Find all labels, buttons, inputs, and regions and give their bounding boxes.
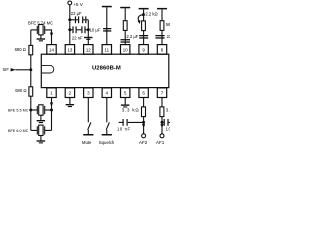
svg-text:BFE 6.0 MC: BFE 6.0 MC	[8, 129, 29, 133]
wire pin 7 down	[161, 98, 163, 134]
ground FL3	[37, 140, 46, 143]
IC U1 body	[41, 54, 169, 87]
wire C1 links	[76, 19, 88, 21]
svg-text:22 nF: 22 nF	[72, 35, 83, 40]
resistor R4	[142, 107, 146, 117]
svg-text:2: 2	[69, 91, 72, 96]
ground on pin 12 line	[84, 37, 93, 40]
arrow on pin 1 wire	[50, 102, 53, 107]
switch S2 blade	[106, 122, 109, 134]
resistor 680 ohm upper label	[15, 47, 26, 52]
wire rail tap to pin 10	[124, 8, 126, 44]
filter FL2 BFE 5.5 MC	[37, 105, 44, 115]
capacitor C1 22uF pair	[75, 16, 86, 23]
wire node A rail to FL1	[31, 29, 38, 31]
svg-text:22n: 22n	[167, 34, 170, 39]
pin 12	[84, 45, 93, 55]
filter FL2 label BFE 5.5 MC	[8, 109, 29, 113]
arrow into pin 14	[50, 33, 53, 38]
wire node G to FL2	[31, 109, 38, 111]
capacitor C5	[139, 35, 148, 39]
capacitor 10uF label	[90, 27, 101, 32]
capacitor C7 label 10 nF	[117, 127, 131, 132]
resistor R5 3.3 kOhm label clipped	[166, 108, 175, 113]
svg-text:Squelch: Squelch	[99, 140, 115, 145]
resistor R3	[160, 21, 164, 31]
node H junction	[142, 121, 145, 124]
ground pin 2	[66, 104, 75, 107]
pin 2	[65, 88, 74, 98]
capacitor C3 10uF	[103, 28, 111, 32]
+5V terminal	[68, 1, 72, 5]
FL3 ground stem	[40, 136, 42, 141]
wire SIF to node A	[16, 69, 31, 71]
wire rail tap to pin 11	[106, 7, 108, 44]
resistor R5	[160, 107, 164, 117]
filter FL1 label BFE 5.74 MC	[28, 20, 53, 25]
supply rail tap pin 9	[139, 8, 149, 9]
AF1 output terminal	[160, 134, 164, 138]
potentiometer R2 body	[142, 21, 146, 31]
+5V label	[73, 2, 84, 7]
filter FL1 BFE 5.74 MC	[37, 25, 44, 35]
capacitor C8 label clipped	[166, 127, 172, 132]
svg-text:3.3: 3.3	[166, 108, 170, 113]
pin 13	[65, 45, 74, 55]
svg-text:10 nF: 10 nF	[117, 127, 131, 132]
svg-text:9: 9	[142, 47, 145, 52]
capacitor C6	[155, 35, 164, 39]
wire node H to C7	[128, 121, 144, 123]
svg-text:AF2: AF2	[139, 140, 148, 145]
svg-text:Mute: Mute	[82, 140, 92, 145]
svg-text:2.2 kΩ: 2.2 kΩ	[145, 11, 157, 16]
svg-text:12: 12	[86, 47, 91, 52]
resistor 680 ohm lower label	[15, 88, 26, 93]
pin 4	[102, 88, 111, 98]
arrow to AF2	[142, 124, 145, 128]
wire FL2 to node F	[45, 109, 52, 111]
svg-text:680 Ω: 680 Ω	[15, 88, 26, 93]
FL1 ground stem	[40, 35, 42, 39]
pin 5	[121, 88, 130, 98]
filter FL3 BFE 6.0 MC	[37, 125, 44, 135]
FL2 ground stem	[40, 115, 42, 120]
capacitor C8	[164, 119, 169, 126]
potentiometer 2.2 kOhm label	[145, 11, 157, 16]
node G junction	[29, 109, 32, 112]
wire FL3 to pin1 rail	[45, 129, 52, 131]
capacitor C2 22nF pair	[72, 26, 85, 33]
svg-text:3: 3	[87, 91, 90, 96]
wire node B to C1	[70, 19, 76, 21]
svg-text:6: 6	[142, 91, 145, 96]
AF2 label	[139, 140, 148, 145]
node B junction	[68, 18, 71, 21]
filter FL3 label BFE 6.0 MC	[8, 129, 29, 133]
IC notch	[42, 65, 54, 73]
AF1 label	[156, 140, 165, 145]
svg-text:2.2 µF: 2.2 µF	[126, 34, 138, 39]
wire node I to C8	[162, 121, 164, 123]
AF2 output terminal	[142, 134, 146, 138]
node F junction	[50, 109, 53, 112]
switch S2 terminal bar	[102, 134, 112, 136]
capacitor 2.2uF label	[126, 34, 138, 39]
pin 7	[157, 88, 166, 98]
svg-text:AF1: AF1	[156, 140, 165, 145]
potentiometer wiper arrowhead	[137, 20, 140, 24]
pin 14	[47, 45, 56, 55]
wire C2 links	[77, 29, 89, 31]
arrow to AF1	[160, 124, 163, 128]
wire pin 3 down	[87, 98, 89, 123]
capacitor C7 10nF	[123, 119, 128, 126]
svg-text:SIF: SIF	[3, 67, 10, 72]
resistor R1	[123, 21, 127, 31]
resistor R4 3.3 kOhm label	[122, 108, 140, 113]
svg-text:13: 13	[67, 47, 72, 52]
resistor 680 ohm lower	[29, 87, 33, 96]
pin 11	[102, 45, 111, 55]
switch S2 label Squelch	[99, 140, 115, 145]
svg-text:1: 1	[50, 91, 53, 96]
svg-text:3.3 kΩ: 3.3 kΩ	[122, 108, 140, 113]
switch S1 terminal bar	[83, 134, 93, 136]
SIF input label	[3, 67, 10, 72]
switch S1 blade	[88, 122, 91, 134]
supply rail tap pin 11	[102, 6, 112, 8]
ground FL2	[37, 120, 46, 123]
node C junction	[68, 28, 71, 31]
supply rail tap pin 8	[157, 8, 167, 9]
wire +5V to pin 13	[69, 5, 71, 45]
wire pin 4 down	[106, 98, 108, 123]
ground FL1	[37, 38, 46, 41]
svg-text:14: 14	[49, 47, 54, 52]
svg-text:8: 8	[161, 47, 164, 52]
pin 1	[47, 88, 56, 98]
svg-text:BFE 5.5 MC: BFE 5.5 MC	[8, 109, 29, 113]
ground pin 5	[121, 104, 129, 107]
SIF input arrow	[11, 68, 16, 71]
capacitor 22nF label	[72, 35, 83, 40]
wire rail tap to pin 9	[143, 9, 145, 44]
resistor 680 ohm upper	[29, 45, 33, 54]
svg-text:4: 4	[106, 91, 109, 96]
svg-text:11: 11	[105, 47, 110, 52]
svg-text:10: 10	[166, 127, 170, 132]
svg-text:560: 560	[166, 22, 170, 27]
wire rail to FL3	[31, 129, 38, 131]
wire node C to C2	[70, 29, 73, 31]
svg-text:10 µF: 10 µF	[90, 27, 101, 32]
potentiometer wiper arrow	[138, 15, 143, 21]
svg-text:+5 V: +5 V	[73, 2, 84, 7]
pin 6	[139, 88, 148, 98]
pin 8	[157, 45, 166, 55]
resistor R3 value label clipped	[166, 22, 174, 27]
capacitor 22uF label	[71, 11, 82, 16]
wire decoupling rail to pin 12	[87, 20, 89, 45]
wire pin 1 down	[51, 98, 53, 131]
svg-text:U2860B-M: U2860B-M	[92, 66, 121, 72]
wire pin 2 down	[69, 98, 71, 105]
wire rail tap to pin 8	[161, 9, 163, 44]
svg-text:5: 5	[124, 91, 127, 96]
wire pin 5 down	[124, 98, 126, 105]
capacitor C6 value label clipped	[167, 34, 175, 39]
capacitor C7 stub	[119, 121, 123, 123]
svg-text:10: 10	[123, 47, 128, 52]
wire FL1 out to pin 14	[45, 30, 52, 45]
pin 3	[84, 88, 93, 98]
node A junction	[29, 68, 32, 71]
node I junction	[161, 121, 164, 124]
capacitor C4 2.2uF	[121, 39, 131, 43]
supply rail tap pin 10	[120, 7, 130, 9]
IC label U2860B-M	[92, 66, 121, 72]
pin 10	[121, 45, 130, 55]
svg-text:7: 7	[161, 91, 164, 96]
svg-text:680 Ω: 680 Ω	[15, 47, 26, 52]
pin 9	[139, 45, 148, 55]
node E junction	[142, 13, 145, 16]
switch S1 label Mute	[82, 140, 92, 145]
svg-text:22 µF: 22 µF	[71, 11, 82, 16]
wire pin 6 down	[143, 98, 145, 134]
capacitor C8 stub	[169, 121, 170, 123]
wire left rail	[30, 30, 32, 130]
node D junction	[87, 28, 90, 31]
